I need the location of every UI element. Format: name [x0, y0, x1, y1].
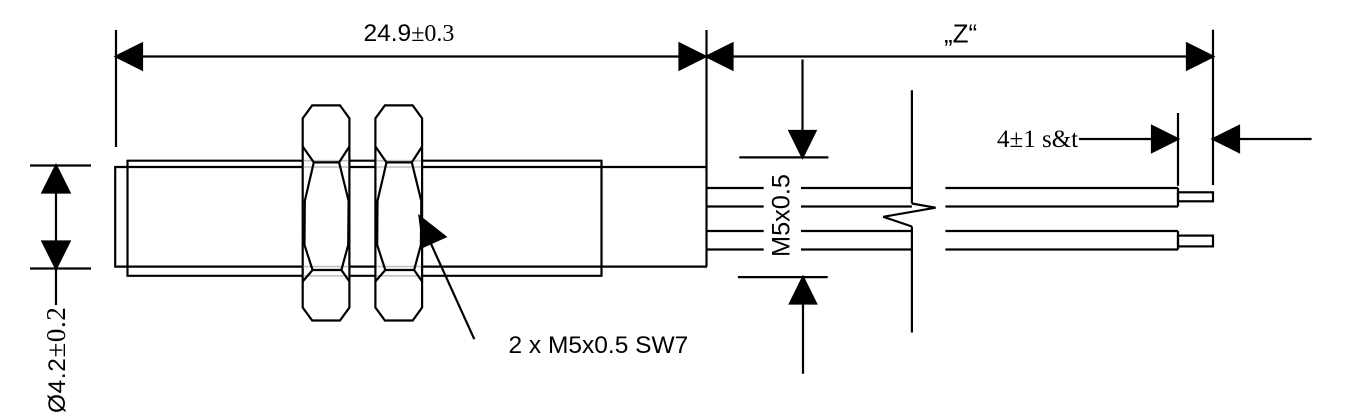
- dimension Z extension line right: [1212, 30, 1214, 185]
- svg-text:M5x0.5: M5x0.5: [768, 174, 796, 257]
- body inner rectangle (thread root / rear section): [115, 166, 707, 268]
- wire lines right of break: [945, 188, 1178, 250]
- dimension 24.9 line: [116, 55, 706, 57]
- svg-text:Ø4.2±0.2: Ø4.2±0.2: [41, 307, 71, 413]
- leader arrowhead (SW7): [420, 217, 446, 247]
- dimension Z arrow left: [707, 44, 733, 70]
- M5x0.5 upper arrow line: [801, 60, 803, 134]
- leader line to nut (SW7): [427, 235, 474, 339]
- wire lines (cable) left of text gap: [707, 188, 764, 250]
- M5x0.5 lower tick: [738, 276, 828, 278]
- body right edge / extension line at x=706.5: [705, 30, 707, 267]
- diameter dimension vertical line: [55, 166, 57, 306]
- svg-text:2 x M5x0.5 SW7: 2 x M5x0.5 SW7: [509, 332, 689, 359]
- break zigzag: [883, 204, 935, 227]
- dimension 24.9 arrow left: [116, 44, 142, 70]
- strip dimension arrow (right-pointing): [1152, 126, 1178, 152]
- dimension Z line: [707, 55, 1214, 57]
- M5x0.5 lower arrow (up): [790, 277, 816, 303]
- diameter dimension bottom tick: [30, 267, 91, 269]
- diameter dimension arrow down: [43, 242, 70, 269]
- strip dimension arrow (left-pointing): [1213, 126, 1239, 152]
- dimension Z arrow right: [1187, 44, 1213, 70]
- body outer rectangle (thread crest): [128, 160, 602, 277]
- svg-text:„Z“: „Z“: [944, 19, 977, 49]
- nut 2 (hex nut side view): [375, 105, 422, 320]
- break line vertical: [911, 90, 913, 332]
- svg-text:4±1 s&t: 4±1 s&t: [997, 126, 1078, 153]
- dimension 24.9 arrow right: [680, 44, 706, 70]
- dimension 24.9 extension line left: [115, 30, 117, 147]
- wire 2 end and stripped tip: [1178, 231, 1213, 250]
- strip dimension leader line: [1079, 138, 1154, 140]
- wire lines between text gap and break: [801, 188, 912, 250]
- svg-text:24.9±0.3: 24.9±0.3: [364, 20, 455, 47]
- nut 1 (hex nut side view): [303, 105, 350, 320]
- strip dimension extension line: [1177, 113, 1179, 186]
- M5x0.5 upper arrow (down): [790, 131, 816, 157]
- diameter dimension top tick: [30, 164, 91, 166]
- strip dimension tail line: [1239, 138, 1312, 140]
- M5x0.5 lower arrow line: [802, 302, 804, 374]
- M5x0.5 upper tick: [739, 156, 828, 158]
- wire 1 end and stripped tip: [1178, 188, 1213, 207]
- diameter dimension arrow up: [43, 166, 70, 193]
